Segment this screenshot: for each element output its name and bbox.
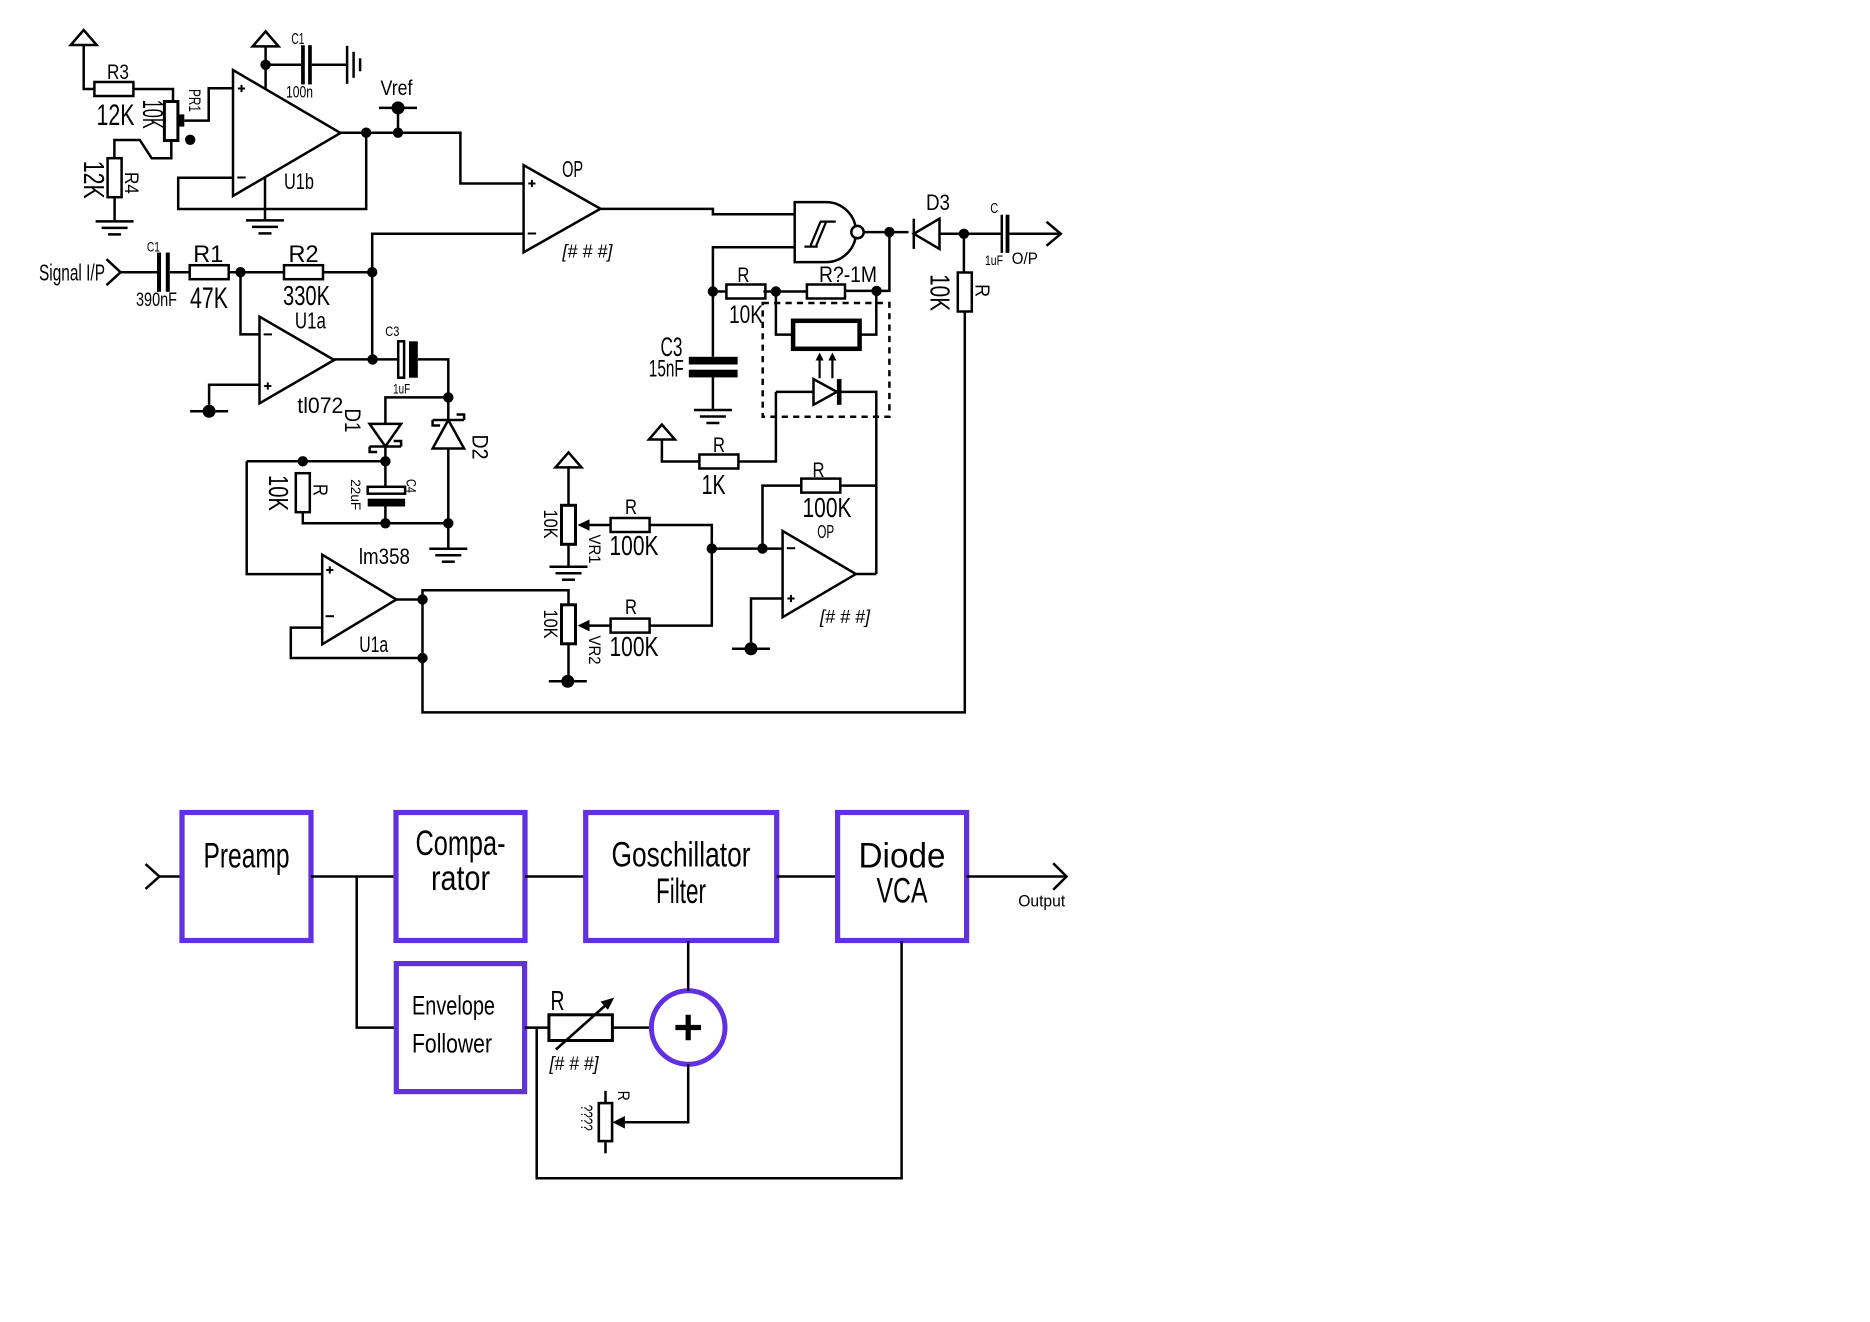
wire D1 to C4	[384, 447, 387, 487]
svg-text:1uF: 1uF	[393, 381, 410, 397]
ground D2/C4	[429, 549, 467, 562]
junction U1b out/feedback	[361, 128, 371, 138]
junction D2 bottom	[443, 518, 453, 528]
svg-text:R: R	[309, 484, 331, 496]
LDR element (vactrol resistor)	[793, 321, 860, 349]
wire to OP -	[372, 234, 523, 272]
wire C4 bottom	[384, 507, 387, 524]
svg-text:1K: 1K	[702, 469, 726, 500]
variable resistor R (block)	[549, 1015, 613, 1041]
wire Goschillator to summer	[687, 941, 690, 991]
wire R to R?-1M	[763, 290, 807, 293]
svg-text:22uF: 22uF	[348, 479, 364, 510]
resistor R 10K (timing)	[726, 285, 765, 299]
potentiometer PR1	[164, 102, 178, 141]
svg-text:D1: D1	[340, 409, 365, 433]
wire NAND out to D3	[864, 231, 909, 234]
diode D1 (zener)	[370, 424, 402, 447]
resistor R 10K (output)	[958, 273, 972, 312]
block Goschillator Filter	[586, 813, 777, 941]
wire R3 to PR1	[133, 89, 173, 102]
junction R?-1M right	[871, 286, 881, 296]
svg-text:100K: 100K	[610, 631, 659, 662]
svg-text:330K: 330K	[283, 280, 330, 311]
svg-text:OP: OP	[817, 522, 834, 542]
capacitor C3 15nF	[689, 357, 738, 365]
svg-text:R?-1M: R?-1M	[819, 262, 877, 287]
wire VR1 to ground	[567, 544, 570, 566]
svg-text:R2: R2	[289, 241, 319, 268]
potentiometer VR2	[562, 605, 576, 644]
junction R2/OP-/U1a-out	[367, 267, 377, 277]
svg-text:[# # #]: [# # #]	[819, 607, 871, 627]
resistor R3	[94, 82, 133, 96]
junction NAND out	[884, 227, 894, 237]
svg-text:R1: R1	[193, 241, 223, 268]
wire Comparator to Goschillator	[525, 875, 586, 878]
svg-text:lm358: lm358	[359, 544, 410, 569]
svg-text:C1: C1	[147, 239, 160, 255]
resistor R1	[190, 265, 229, 279]
LED light arrows	[820, 359, 833, 378]
node rail tap (VR2)	[549, 680, 587, 683]
wire input to Preamp	[159, 875, 182, 878]
svg-text:10K: 10K	[539, 510, 560, 539]
node rail tap (OP2 +)	[732, 648, 770, 651]
svg-text:[# # #]: [# # #]	[549, 1054, 600, 1075]
wire U1a out to C3	[334, 358, 398, 361]
svg-text:15nF: 15nF	[649, 356, 684, 383]
ground	[96, 221, 134, 234]
svg-text:U1a: U1a	[295, 308, 326, 334]
wire NAND out down to R?-1M	[844, 232, 890, 291]
resistor R?-1M	[807, 285, 845, 299]
wire LED anode	[776, 391, 814, 394]
wire +V to R1K	[662, 439, 700, 462]
wire fb R left	[763, 486, 802, 549]
capacitor C1 100n	[301, 45, 305, 84]
svg-text:10K: 10K	[136, 100, 168, 129]
junction NAND-B/C3/R	[708, 286, 718, 296]
wire to LDR left	[776, 292, 793, 335]
svg-text:R3: R3	[107, 61, 129, 84]
svg-text:R: R	[813, 459, 825, 482]
power +V (R 1K)	[649, 425, 675, 440]
resistor R 100K (feedback)	[801, 479, 840, 493]
svg-text:Signal I/P: Signal I/P	[39, 260, 105, 286]
wire pot bottom	[604, 1141, 607, 1153]
svg-text:rator: rator	[431, 859, 490, 898]
svg-text:R: R	[614, 1091, 633, 1101]
resistor R 10K (envelope)	[296, 473, 310, 512]
wire PR1 wiper to U1b +	[184, 88, 233, 120]
node Vref	[379, 107, 417, 110]
wire to C1	[266, 64, 302, 67]
op-amp U1a (TL072)	[260, 317, 335, 404]
wire Diode VCA to output	[967, 875, 1067, 878]
wire C3 to D2	[418, 359, 449, 420]
wire +V to VR1	[567, 466, 570, 505]
wire D2 to ground	[447, 449, 450, 549]
junction R/R?-1M	[771, 286, 781, 296]
svg-text:390nF: 390nF	[136, 290, 177, 311]
diode D3	[914, 219, 940, 249]
svg-text:47K: 47K	[190, 282, 228, 315]
svg-text:C3: C3	[385, 323, 399, 339]
svg-text:100K: 100K	[610, 530, 659, 561]
junction U1a out	[367, 354, 377, 364]
svg-text:Follower: Follower	[412, 1029, 492, 1059]
junction lm358 out	[417, 594, 427, 604]
svg-text:PR1: PR1	[185, 89, 204, 112]
wire U1b out to OP +	[341, 133, 524, 184]
svg-text:C: C	[990, 200, 998, 217]
svg-text:10K: 10K	[925, 274, 956, 311]
capacitor C4 22uF (polarized)	[368, 487, 405, 494]
block Comparator	[396, 813, 525, 941]
wire LED anode down to R1K	[738, 392, 776, 462]
block Preamp	[182, 813, 311, 941]
svg-text:U1a: U1a	[359, 632, 389, 657]
wire R4 to ground	[113, 197, 116, 221]
svg-text:[# # #]: [# # #]	[561, 242, 613, 262]
wire input to C1	[121, 271, 157, 274]
svg-text:OP: OP	[562, 156, 583, 182]
junction R1/R2/U1a-	[235, 267, 245, 277]
wire node down to U1a out	[371, 272, 374, 359]
svg-text:Envelope: Envelope	[412, 991, 495, 1021]
ground (rotated)	[347, 46, 360, 84]
wire VR2 to tap	[567, 644, 570, 682]
wire C3 to ground	[712, 377, 715, 410]
svg-text:C4: C4	[404, 479, 420, 493]
wire NAND input B	[713, 247, 795, 291]
svg-text:R: R	[625, 496, 637, 519]
wire D3 to C	[940, 233, 1001, 236]
wire PR1 bottom to R4	[114, 140, 171, 158]
svg-text:????: ????	[577, 1105, 596, 1131]
wire to U1a -	[241, 272, 260, 334]
capacitor C3 1uF (polarized)	[398, 341, 404, 377]
wire OP out to NAND A	[601, 209, 795, 214]
wire R2 to node	[323, 271, 372, 274]
svg-text:Goschillator: Goschillator	[612, 836, 751, 875]
svg-text:Vref: Vref	[381, 77, 413, 100]
wire U1a + to tap	[209, 385, 259, 405]
wire OP2 + to tap	[751, 599, 783, 649]
wire bottom rail	[423, 312, 965, 712]
svg-text:Compa-: Compa-	[416, 824, 506, 863]
wire to output	[1009, 233, 1060, 236]
svg-text:tl072: tl072	[297, 393, 343, 418]
wire to D1	[385, 397, 448, 424]
wire R1 to R2	[229, 271, 284, 274]
wire VR1 wiper to R	[589, 524, 611, 527]
svg-text:12K: 12K	[97, 99, 135, 132]
svg-text:VR2: VR2	[585, 636, 604, 665]
wire lm358 out to VR2	[423, 590, 569, 605]
wire U1b V- pin	[264, 178, 267, 221]
wire to R10K out	[963, 234, 966, 273]
op-amp U1b	[233, 70, 341, 196]
wire LDR right up	[860, 291, 877, 335]
svg-text:Filter: Filter	[656, 872, 706, 911]
ground C3 15nF	[694, 410, 732, 423]
svg-text:R: R	[971, 284, 993, 297]
wire summer to pot	[625, 1064, 688, 1122]
junction Vref tap	[393, 128, 403, 138]
svg-text:Preamp: Preamp	[204, 836, 290, 875]
wire U1b feedback	[178, 133, 366, 209]
vactrol dashed box	[763, 303, 890, 417]
ground VR1	[550, 567, 588, 580]
wire LED cathode down	[842, 392, 877, 574]
wire VR1-R to VR2-R	[650, 525, 712, 626]
power +V (top-left)	[71, 30, 97, 45]
resistor R 100K (VR1)	[611, 518, 650, 532]
svg-text:10K: 10K	[729, 301, 763, 329]
potentiometer R ???? (block)	[599, 1103, 612, 1141]
port Signal I/P arrow	[107, 259, 121, 285]
power +V (U1b)	[253, 31, 279, 46]
svg-text:O/P: O/P	[1012, 249, 1038, 268]
wire +V to R3	[84, 44, 95, 89]
block Envelope Follower	[396, 964, 524, 1092]
op-amp OP (gain)	[783, 531, 856, 617]
wire row 523	[385, 522, 448, 525]
wire VR2 wiper to R	[589, 624, 611, 627]
wire +V pin U1b	[264, 45, 267, 88]
wire R10K bottom row	[303, 512, 386, 523]
op-amp lm358	[322, 555, 396, 645]
svg-text:R: R	[551, 985, 565, 1016]
resistor R4	[108, 158, 122, 197]
junction D1/C4/R10K row	[380, 456, 390, 466]
svg-text:R4: R4	[120, 172, 141, 194]
wire C1 to R1	[170, 271, 190, 274]
wire row 461	[247, 460, 386, 463]
junction U1b V+ / C1	[260, 60, 270, 70]
dot (wiper net)	[185, 135, 195, 145]
wire pot top	[604, 1091, 607, 1103]
op-amp OP (comparator)	[524, 165, 601, 252]
svg-text:100n: 100n	[286, 83, 313, 102]
wire OP2 out	[856, 573, 876, 576]
wire lm358 out	[396, 598, 422, 601]
wire to C3 15nF	[712, 292, 715, 357]
svg-text:D2: D2	[468, 435, 493, 460]
svg-text:Output: Output	[1018, 891, 1065, 910]
capacitor C1 390nF	[157, 253, 161, 292]
diode D2 (zener)	[433, 420, 465, 449]
block diagram input arrow	[146, 864, 160, 889]
svg-text:10K: 10K	[539, 610, 560, 639]
capacitor C 1uF (output)	[1001, 215, 1004, 253]
block Diode VCA	[838, 813, 967, 941]
wire lm358 feedback	[291, 628, 423, 658]
wire Envelope to R	[525, 1026, 549, 1029]
block diagram output arrow	[1053, 863, 1066, 890]
NAND gate U? (Schmitt trigger)	[795, 202, 856, 262]
svg-text:1uF: 1uF	[985, 252, 1003, 268]
svg-text:VR1: VR1	[585, 535, 604, 564]
junction feedback/rail	[417, 653, 427, 663]
junction to OP -	[707, 543, 717, 553]
wire to Vref tap	[397, 108, 400, 133]
svg-text:12K: 12K	[77, 161, 109, 199]
resistor R 100K (VR2)	[611, 619, 650, 633]
potentiometer VR1	[562, 505, 576, 544]
svg-text:R: R	[625, 596, 637, 619]
wire feedback loop	[537, 941, 902, 1178]
wire R to summer	[612, 1026, 650, 1029]
junction D1/D2	[443, 392, 453, 402]
wire to R 10K	[713, 290, 728, 293]
resistor R 1K	[699, 455, 738, 469]
svg-text:C1: C1	[291, 31, 304, 48]
summing junction	[651, 991, 725, 1065]
resistor R2	[284, 265, 323, 279]
wire fb R right	[840, 484, 876, 487]
svg-text:U1b: U1b	[284, 169, 314, 194]
wire Preamp to Comparator	[311, 875, 396, 878]
wire Preamp to Envelope Follower	[357, 877, 397, 1028]
wire to OP2 -	[712, 547, 783, 550]
ground	[246, 220, 284, 233]
wire C1 to ground	[312, 64, 347, 67]
svg-text:R: R	[737, 264, 749, 287]
svg-text:D3: D3	[926, 190, 950, 215]
LED (vactrol)	[814, 379, 837, 405]
wire Goschillator to Diode VCA	[777, 875, 838, 878]
port O/P arrow	[1047, 222, 1061, 246]
power +V (VR1)	[556, 452, 582, 467]
wire to lm358 +	[247, 461, 323, 574]
junction fb R left	[757, 543, 767, 553]
junction C4 bottom	[380, 518, 390, 528]
junction D3/R10K	[959, 229, 969, 239]
svg-text:VCA: VCA	[877, 872, 928, 911]
svg-text:10K: 10K	[263, 475, 294, 511]
svg-text:R: R	[713, 434, 725, 457]
svg-text:100K: 100K	[803, 492, 852, 523]
svg-text:Diode: Diode	[859, 836, 946, 875]
node rail tap (U1a +)	[190, 410, 228, 413]
junction R10K top	[298, 456, 308, 466]
